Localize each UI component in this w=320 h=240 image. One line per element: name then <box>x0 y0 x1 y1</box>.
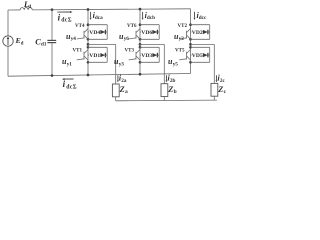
label uy4 gate signal <box>66 32 76 42</box>
label uy6 gate signal <box>119 32 129 42</box>
wire diode VD2 branch <box>191 31 210 33</box>
label i2a with down arrow <box>117 73 127 83</box>
node VT1 cell bottom junction <box>87 61 90 64</box>
load impedance Za box <box>112 84 119 97</box>
wire VT6 cell bottom <box>140 38 159 40</box>
label uy5 gate signal <box>168 57 178 67</box>
capacitor Cd1 <box>47 40 56 42</box>
svg-text:2a: 2a <box>121 78 127 84</box>
label idcc with down arrow <box>194 11 207 21</box>
svg-text:VD2: VD2 <box>192 30 203 36</box>
node phase a output junction <box>87 43 90 46</box>
node VT5 cell bottom junction <box>189 61 192 64</box>
transistor VT2 <box>179 29 190 40</box>
diode VD5 <box>203 53 210 58</box>
svg-text:dcc: dcc <box>199 15 207 21</box>
svg-text:i: i <box>63 79 66 89</box>
label VD5 <box>192 52 203 59</box>
svg-text:y4: y4 <box>71 36 77 42</box>
label VT5 <box>175 48 185 53</box>
label VT1 <box>73 48 83 53</box>
svg-text:y5: y5 <box>173 61 179 67</box>
node VT2 cell bottom junction <box>189 38 192 41</box>
wire left branch bottom <box>7 46 9 76</box>
label idca with down arrow <box>90 11 103 21</box>
node VT1 cell top junction <box>87 46 90 49</box>
node VT3 cell bottom junction <box>139 61 142 64</box>
label VT2 <box>178 24 188 29</box>
node VT5 cell top junction <box>189 46 192 49</box>
svg-text:y3: y3 <box>119 61 125 67</box>
label Za <box>119 85 128 95</box>
wire load c vertical upper <box>213 44 215 83</box>
wire diode VD4 branch <box>88 31 107 33</box>
svg-text:VT4: VT4 <box>75 24 85 29</box>
wire VT4 cell top <box>88 24 107 26</box>
wire load b vertical upper <box>163 44 165 83</box>
svg-text:b: b <box>174 89 177 95</box>
wire diode VD3 branch <box>140 54 159 56</box>
svg-text:d: d <box>21 42 24 47</box>
wire VT2 cell right side <box>209 25 211 40</box>
label Cd1 <box>35 37 47 47</box>
diode VD4 <box>100 30 107 35</box>
wire VT1 cell right side <box>106 47 108 62</box>
label VD3 <box>141 52 152 59</box>
node phase b output junction <box>139 43 142 46</box>
wire VT1 cell bottom <box>88 61 107 63</box>
load impedance Zb box <box>161 84 168 97</box>
wire VT5 cell right side <box>209 47 211 62</box>
diode VD2 <box>203 30 210 35</box>
svg-text:VT1: VT1 <box>73 48 83 53</box>
wire top bus left segment <box>8 9 20 11</box>
svg-text:E: E <box>15 36 21 45</box>
wire capacitor branch upper <box>51 10 53 41</box>
transistor VT6 <box>129 29 140 40</box>
svg-text:c: c <box>224 89 227 95</box>
wire top bus right segment <box>32 9 190 10</box>
wire VT2 cell bottom <box>191 38 210 40</box>
node phase c output junction <box>189 43 192 46</box>
svg-text:d: d <box>28 5 31 10</box>
transistor VT4 <box>77 29 88 40</box>
wire leg a main vertical <box>87 9 89 75</box>
wire VT3 cell top <box>140 46 159 48</box>
label Ld <box>23 0 32 10</box>
node VT4 cell bottom junction <box>87 38 90 41</box>
wire neutral bus <box>116 99 217 102</box>
svg-text:VT3: VT3 <box>125 48 135 53</box>
node capacitor bottom junction <box>51 74 54 77</box>
voltage source Ed circle <box>3 36 13 46</box>
wire VT4 cell right side <box>106 25 108 40</box>
label i2c with down arrow <box>216 73 226 83</box>
wire VT6 cell right side <box>158 25 160 40</box>
svg-text:VD6: VD6 <box>141 30 152 36</box>
node VT6 cell bottom junction <box>139 38 142 41</box>
wire leg c main vertical <box>190 9 192 74</box>
wire diode VD1 branch <box>88 54 107 56</box>
wire left branch top (source to top bus) <box>7 10 9 36</box>
wire VT5 cell top <box>191 46 210 48</box>
wire load c vertical lower <box>213 96 215 100</box>
svg-text:Z: Z <box>119 85 125 94</box>
label Ed <box>15 36 24 46</box>
node VT6 cell top junction <box>139 23 142 26</box>
svg-text:VT5: VT5 <box>175 48 185 53</box>
node VT4 cell top junction <box>87 23 90 26</box>
svg-text:VD4: VD4 <box>89 30 100 36</box>
svg-text:2b: 2b <box>170 78 176 84</box>
node leg a top bus junction <box>87 8 90 11</box>
svg-text:dcΣ: dcΣ <box>66 84 77 90</box>
label idc-sigma top with right arrow <box>57 11 72 24</box>
inductor Ld <box>20 8 32 10</box>
svg-text:y1: y1 <box>67 61 73 67</box>
label idcb with down arrow <box>142 11 155 21</box>
svg-text:i: i <box>58 13 61 23</box>
wire VT5 cell bottom <box>191 61 210 63</box>
label idc-sigma bottom with left arrow <box>62 78 77 90</box>
svg-text:2c: 2c <box>220 78 226 84</box>
load impedance Zc box <box>211 83 218 96</box>
label VT6 <box>127 24 137 29</box>
label VT4 <box>75 24 85 29</box>
node VT3 cell top junction <box>139 46 142 49</box>
svg-text:VT2: VT2 <box>178 24 188 29</box>
transistor VT3 <box>129 50 140 61</box>
node leg a bottom bus junction <box>87 74 90 77</box>
svg-text:d1: d1 <box>41 42 47 48</box>
label i2b with down arrow <box>166 73 176 83</box>
wire VT4 cell bottom <box>88 38 107 40</box>
voltage source Ed arrow <box>7 36 10 45</box>
wire VT2 cell top <box>191 24 210 26</box>
node leg b top bus junction <box>139 8 142 11</box>
transistor VT1 <box>77 50 88 61</box>
svg-text:VT6: VT6 <box>127 24 137 29</box>
wire VT6 cell top <box>140 24 159 26</box>
transistor VT5 <box>179 50 190 61</box>
label uy2 gate signal <box>174 32 184 42</box>
label VT3 <box>125 48 135 53</box>
node leg b bottom bus junction <box>139 73 142 76</box>
wire load a vertical upper <box>115 44 117 84</box>
node VT2 cell top junction <box>189 23 192 26</box>
label VD4 <box>89 29 100 36</box>
wire VT3 cell bottom <box>140 61 159 63</box>
diode VD3 <box>152 53 159 58</box>
node capacitor top junction <box>51 8 54 11</box>
wire capacitor branch lower <box>51 43 53 76</box>
diode VD1 <box>100 53 107 58</box>
svg-text:dcb: dcb <box>147 15 155 21</box>
wire VT1 cell top <box>88 46 107 48</box>
svg-text:dcΣ: dcΣ <box>61 18 72 24</box>
wire phase b output horizontal <box>140 43 164 45</box>
svg-text:y2: y2 <box>179 36 185 42</box>
diode VD6 <box>152 30 159 35</box>
wire phase c output horizontal <box>191 43 215 45</box>
wire diode VD6 branch <box>140 31 159 33</box>
label VD1 <box>89 52 100 59</box>
label uy1 gate signal <box>62 57 72 67</box>
label uy3 gate signal <box>114 57 124 67</box>
wire VT3 cell right side <box>158 47 160 62</box>
svg-text:Z: Z <box>167 85 173 94</box>
label VD6 <box>141 29 152 36</box>
wire load a vertical lower <box>115 97 117 101</box>
wire phase a output horizontal <box>88 43 116 45</box>
label Zc <box>217 85 226 95</box>
wire leg b main vertical <box>139 9 141 74</box>
wire diode VD5 branch <box>191 54 210 56</box>
svg-text:dca: dca <box>95 15 103 21</box>
svg-text:VD3: VD3 <box>141 53 152 59</box>
svg-text:VD5: VD5 <box>192 53 203 59</box>
label VD2 <box>192 29 203 36</box>
svg-text:a: a <box>125 89 128 95</box>
wire load b vertical lower <box>163 97 165 101</box>
wire bottom bus <box>8 74 191 77</box>
label Zb <box>167 85 176 95</box>
svg-text:Z: Z <box>217 85 223 94</box>
svg-text:y6: y6 <box>124 36 130 42</box>
svg-text:VD1: VD1 <box>89 53 100 59</box>
